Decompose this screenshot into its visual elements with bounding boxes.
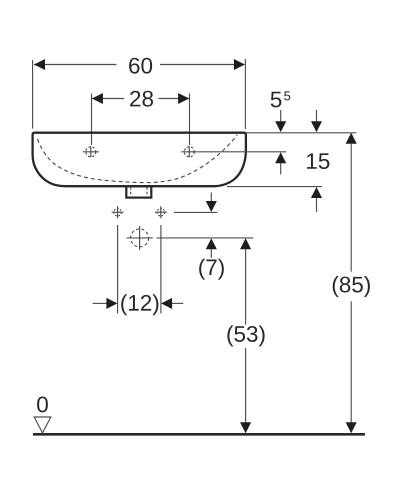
tap hole right: dashed circle bbox=[184, 147, 194, 157]
dimension line 28 left segment bbox=[92, 98, 124, 100]
arrowhead 60 left bbox=[34, 59, 45, 70]
label 60 bbox=[129, 58, 152, 74]
label 0 datum bbox=[37, 396, 48, 412]
extension line left fixing hole (12 dim) bbox=[117, 225, 119, 314]
drain / trap rectangle bbox=[126, 186, 151, 197]
arrowhead 60 right bbox=[234, 59, 245, 70]
tap hole right: cross bbox=[181, 151, 197, 153]
dim 15: down arrowhead at rim bbox=[311, 121, 322, 132]
drain dashed line right bbox=[146, 187, 148, 197]
dimension line 28 right segment bbox=[159, 98, 190, 100]
label (12) bbox=[121, 294, 158, 315]
label (85) bbox=[333, 276, 370, 297]
dim 5.5: down arrowhead at rim bbox=[275, 121, 286, 132]
dim 53: lower shaft bbox=[245, 348, 247, 423]
drain dashed line left bbox=[130, 187, 132, 197]
dim 12: left arrowhead bbox=[106, 298, 117, 309]
dim 5.5: lower shaft bbox=[280, 163, 282, 175]
fixing hole left: dashed circle bbox=[114, 208, 122, 216]
label 28 bbox=[130, 91, 153, 107]
dim 85: upper shaft bbox=[350, 144, 352, 272]
label 5 superscript 5 bbox=[271, 92, 282, 108]
drain hole: dashed circle bbox=[131, 229, 149, 247]
dim 12: left shaft bbox=[93, 302, 107, 304]
dim 15: lower shaft bbox=[316, 198, 318, 212]
dim 5.5: upper down-arrow shaft bbox=[280, 110, 282, 122]
leader line tap holes (5.5 dim) bbox=[198, 151, 287, 153]
dim 7: lower shaft bbox=[210, 249, 212, 258]
dim 5.5: up arrowhead at hole line bbox=[275, 152, 286, 163]
leader line basin bottom (15 dim) bbox=[227, 186, 322, 188]
dim 15: up arrowhead at bottom line bbox=[311, 187, 322, 198]
label (7) bbox=[199, 259, 224, 280]
dim 12: right arrowhead bbox=[161, 298, 172, 309]
arrowhead 28 left bbox=[92, 93, 103, 104]
leader line drain hole bbox=[157, 237, 254, 239]
extension line left of dim 60 bbox=[32, 60, 34, 129]
label (53) bbox=[227, 325, 264, 346]
arrowhead 28 right bbox=[178, 93, 189, 104]
dim 85: up arrowhead at rim line bbox=[346, 133, 357, 144]
dim 7: down arrowhead at fixing hole line bbox=[206, 201, 217, 212]
dim 53: up arrowhead at drain line bbox=[240, 238, 251, 249]
dim 7: up arrowhead at drain line bbox=[206, 238, 217, 249]
drain hole: cross bbox=[127, 237, 153, 239]
leader line rim extension (to 85 dim) bbox=[246, 132, 357, 134]
dim 85: down arrowhead at floor bbox=[346, 422, 357, 433]
dimension line 60 left segment bbox=[34, 64, 117, 66]
dim 53: upper shaft bbox=[245, 249, 247, 325]
dim 15: upper down-arrow shaft bbox=[316, 110, 318, 122]
dimension line 60 right segment bbox=[160, 64, 245, 66]
extension line left of dim 28 bbox=[91, 94, 93, 146]
tap hole left: dashed circle bbox=[86, 147, 96, 157]
extension line right of dim 28 bbox=[189, 94, 191, 146]
inner bowl dashed outline bbox=[38, 135, 238, 183]
leader line fixing holes (7 dim) bbox=[174, 211, 218, 213]
dim 53: down arrowhead at floor bbox=[240, 422, 251, 433]
fixing hole right: cross bbox=[155, 211, 167, 213]
dim 12: right shaft bbox=[172, 302, 183, 304]
tap hole left: cross bbox=[83, 151, 99, 153]
basin outline bbox=[33, 133, 246, 187]
floor line bbox=[33, 433, 365, 436]
dim 85: lower shaft bbox=[350, 301, 352, 423]
fixing hole right: dashed circle bbox=[157, 208, 165, 216]
fixing hole left: cross bbox=[112, 211, 124, 213]
extension line right fixing hole (12 dim) bbox=[160, 225, 162, 314]
dim 7: upper down-arrow shaft bbox=[210, 193, 212, 203]
extension line right of dim 60 bbox=[244, 59, 246, 129]
datum triangle bbox=[34, 417, 51, 433]
label 15 bbox=[307, 153, 329, 169]
